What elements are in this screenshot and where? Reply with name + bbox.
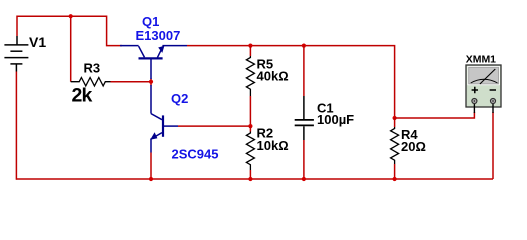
node junction on top rail (69, 14, 73, 18)
resistor R5 (249, 46, 251, 56)
wire Q2 emitter to ground rail (150, 153, 152, 180)
node Q2 emitter on ground rail (149, 177, 153, 181)
wire bottom ground rail (16, 178, 493, 180)
transistor Q1 (120, 46, 187, 79)
wire top rail from V1 to corner above Q1 (17, 16, 122, 45)
node R4 bottom on ground rail (393, 177, 397, 181)
wire Q1 emitter to output rail (187, 46, 395, 118)
transistor Q2 (151, 85, 178, 153)
capacitor C1 (303, 46, 305, 96)
svg-text:10kΩ: 10kΩ (257, 138, 289, 153)
resistor R2 (249, 126, 251, 131)
svg-text:2SC945: 2SC945 (172, 146, 219, 161)
wire output node to XMM1 plus terminal (395, 112, 475, 118)
svg-text:Q2: Q2 (171, 91, 188, 106)
svg-text:XMM1: XMM1 (466, 53, 496, 65)
wire XMM1 minus terminal to ground rail (492, 112, 494, 179)
battery V1 (4, 36, 28, 72)
wire R3 to Q1 base node (111, 81, 152, 83)
multimeter XMM1 (466, 65, 501, 113)
svg-text:20Ω: 20Ω (401, 139, 426, 154)
svg-text:40kΩ: 40kΩ (257, 68, 289, 83)
node A junction at Q1 base / Q2 collector (150, 79, 152, 86)
node C1 bottom on ground rail (302, 177, 306, 181)
node output rail at R5 top (248, 44, 252, 48)
node output at R4 top (393, 116, 397, 120)
svg-text:R3: R3 (84, 61, 101, 76)
node output rail at C1 top (302, 44, 306, 48)
wire Q2 base to divider node (178, 125, 250, 127)
svg-text:V1: V1 (29, 34, 46, 50)
svg-text:Q1: Q1 (142, 14, 159, 29)
svg-text:100µF: 100µF (317, 112, 354, 127)
wire V1 bottom to ground rail (15, 72, 18, 180)
node divider junction R5/R2/Q2 base (248, 124, 252, 128)
resistor R3 (71, 78, 111, 86)
resistor R4 (394, 118, 396, 127)
Q2 emitter arrow (150, 132, 157, 140)
wire branch from top rail down to R3 (70, 16, 72, 82)
svg-text:E13007: E13007 (136, 28, 181, 43)
svg-text:2k: 2k (72, 85, 93, 107)
node R2 bottom on ground rail (248, 177, 252, 181)
Q1 emitter arrow (158, 46, 164, 53)
